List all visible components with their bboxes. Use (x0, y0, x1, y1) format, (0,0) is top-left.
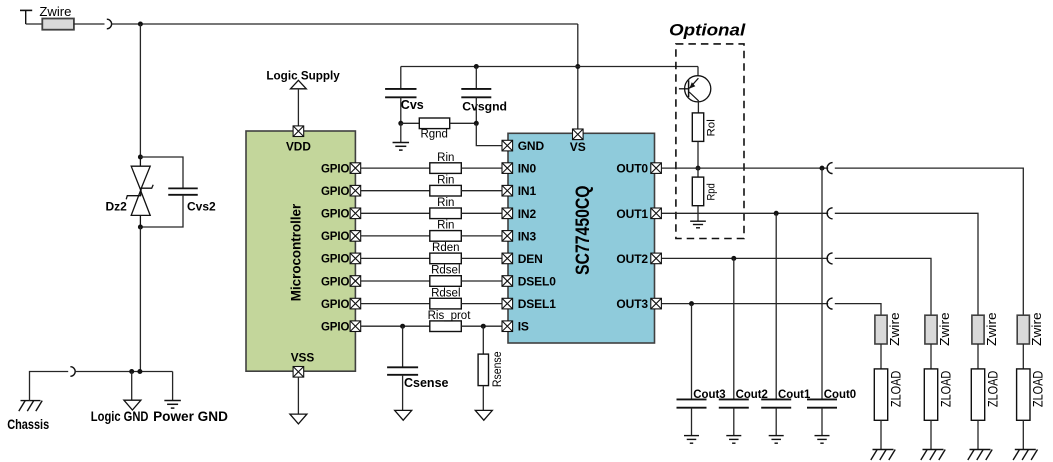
pin GPIO7 on microcontroller (350, 321, 361, 332)
label Rin (437, 174, 454, 186)
svg-text:Logic GND: Logic GND (91, 409, 149, 424)
wire ZLOAD to chassis (column 1) (880, 420, 882, 449)
label ZLOAD (column 3) (985, 371, 1000, 408)
node Cvs / Rgnd junction (398, 121, 403, 126)
label Rdsel (431, 287, 460, 299)
pin VS on SC77450CQ (573, 129, 584, 140)
wire Cout0 drop (821, 168, 823, 399)
ground Power GND (earth) (164, 401, 181, 409)
ground Csense (signal) (395, 410, 412, 420)
svg-text:Dz2: Dz2 (106, 200, 128, 214)
pin GPIO4 on microcontroller (350, 253, 361, 264)
wire Zwire to ZLOAD (column 4) (1022, 344, 1024, 369)
svg-text:Optional: Optional (669, 21, 746, 40)
wire Cout2 drop (733, 258, 735, 399)
wire Cvsgnd bottom to node (475, 97, 477, 123)
wire Cout3 drop (691, 304, 693, 400)
svg-text:Rgnd: Rgnd (420, 128, 448, 140)
wire Power GND drop (172, 372, 174, 401)
resistor ZLOAD (column 1) (874, 369, 887, 420)
wire resistor to DSEL0 pin (461, 280, 502, 282)
svg-text:OUT3: OUT3 (616, 297, 648, 311)
node Logic GND tap (129, 369, 134, 374)
svg-text:DEN: DEN (518, 252, 543, 266)
svg-text:IS: IS (518, 320, 529, 334)
label OUT1 (616, 207, 648, 221)
svg-text:Logic Supply: Logic Supply (266, 68, 340, 82)
svg-text:Csense: Csense (404, 376, 449, 390)
wire GPIO7 to resistor (361, 325, 430, 327)
svg-text:OUT0: OUT0 (616, 162, 648, 176)
svg-text:Zwire: Zwire (39, 5, 71, 19)
svg-text:Zwire: Zwire (888, 312, 902, 346)
label ZLOAD (column 2) (938, 371, 953, 408)
label Rdsel (431, 265, 460, 277)
label Rol (705, 119, 717, 136)
wire Cout1 to ground (775, 408, 777, 436)
ground below Cout3 (earth) (684, 436, 699, 444)
resistor Zwire (load column 1) (875, 315, 887, 344)
capacitor Cout1 (761, 399, 791, 407)
ground below Cvs (earth) (393, 143, 410, 151)
pin OUT3 on SC77450CQ (651, 298, 662, 309)
svg-text:Cvs: Cvs (401, 98, 424, 112)
wire Cout2 to ground (733, 408, 735, 436)
wire Cvs2 bottom to Dz2 bottom (140, 195, 183, 227)
resistor Rpd (692, 177, 703, 206)
svg-text:Rol: Rol (705, 119, 717, 136)
svg-text:Ris_prot: Ris_prot (428, 310, 472, 322)
label Cout2 (736, 387, 769, 401)
node Cvsgnd tap (474, 64, 479, 69)
label Ris_prot (428, 310, 472, 322)
label OUT0 (616, 162, 648, 176)
resistor Rdsel (row DSEL0) (430, 276, 462, 287)
wire resistor to DEN pin (461, 257, 502, 259)
wire resistor to IN2 pin (461, 212, 502, 214)
wire left branch down to Dz2 (139, 24, 141, 157)
power arrow Logic Supply (291, 80, 307, 89)
connector arc on OUT0 (827, 163, 832, 174)
node VS rail junction (575, 64, 580, 69)
wire Zwire to ZLOAD (column 3) (977, 344, 979, 369)
svg-text:Cvsgnd: Cvsgnd (462, 99, 507, 113)
svg-text:GPIO: GPIO (321, 209, 350, 221)
label GPIO (row IN3) (321, 231, 350, 243)
label OUT3 (616, 297, 648, 311)
resistor Rin (row IN1) (430, 185, 462, 196)
node Dz2 bottom (138, 225, 143, 230)
pin OUT1 on SC77450CQ (651, 208, 662, 219)
resistor Zwire (load column 3) (972, 315, 984, 344)
capacitor Cout0 (807, 399, 837, 407)
label Rgnd (420, 128, 448, 140)
svg-text:Zwire: Zwire (1030, 312, 1044, 346)
label IS (518, 320, 529, 334)
label Cvs2 (187, 200, 216, 214)
IC SC77450CQ body (508, 133, 655, 343)
chassis ground symbol (19, 401, 42, 412)
svg-text:Cout3: Cout3 (693, 387, 726, 401)
label Zwire (39, 5, 71, 19)
wire node to GND pin (476, 123, 502, 145)
resistor Zwire (load column 4) (1017, 315, 1029, 344)
label GPIO (row IN0) (321, 163, 350, 175)
label Rden (432, 242, 460, 254)
node Cout3 tap (689, 301, 694, 306)
connector arc J2 (70, 367, 75, 377)
svg-text:Rdsel: Rdsel (431, 287, 460, 299)
wire Logic GND drop (131, 372, 133, 401)
resistor ZLOAD (column 4) (1017, 369, 1030, 420)
label Rpd (705, 183, 717, 200)
pin DSEL0 on SC77450CQ (502, 276, 513, 287)
label Zwire (column 3) (985, 312, 999, 346)
label Power GND (153, 409, 228, 424)
label Microcontroller (289, 203, 304, 301)
ground below Cout0 (earth) (815, 436, 830, 444)
wire resistor to IN1 pin (461, 190, 502, 192)
svg-text:ZLOAD: ZLOAD (1031, 371, 1046, 408)
pin VSS (293, 367, 304, 378)
label IN2 (518, 207, 537, 221)
svg-text:VS: VS (570, 140, 586, 154)
label GND (518, 139, 545, 153)
resistor Rin (row IN2) (430, 208, 462, 219)
label ZLOAD (column 4) (1031, 371, 1046, 408)
wire GPIO0 to resistor (361, 167, 430, 169)
svg-text:Rin: Rin (437, 174, 454, 186)
chassis ground (column 1) (871, 450, 895, 461)
label Rin (437, 220, 454, 232)
wire Rsense to ground (482, 386, 484, 411)
svg-text:Rpd: Rpd (705, 183, 717, 200)
label Csense (404, 376, 449, 390)
resistor ZLOAD (column 3) (971, 369, 984, 420)
wire Rpd to ground (crosses OUT1) (697, 206, 699, 221)
svg-text:Rsense: Rsense (492, 351, 504, 387)
svg-text:GPIO: GPIO (321, 186, 350, 198)
label GPIO (row DSEL1) (321, 299, 350, 311)
wire ZLOAD to chassis (column 3) (977, 420, 979, 449)
chassis ground (column 3) (968, 450, 992, 461)
pin GPIO1 on microcontroller (350, 185, 361, 196)
wire resistor to IN0 pin (461, 167, 502, 169)
pin GPIO3 on microcontroller (350, 231, 361, 242)
wire resistor to IS pin (461, 325, 502, 327)
label SC77450CQ (572, 185, 594, 275)
capacitor Cvs (385, 89, 416, 97)
node Rsense tap on IS row (481, 324, 486, 329)
label Optional (669, 21, 746, 40)
wire GPIO2 to resistor (361, 212, 430, 214)
wire OUT3 to load column (835, 304, 881, 316)
wire OUT1 to load column (835, 213, 978, 315)
ground below Cout2 (earth) (726, 436, 741, 444)
wire Zwire to ZLOAD (column 2) (930, 344, 932, 369)
svg-text:Rdsel: Rdsel (431, 265, 460, 277)
ground below Rpd (earth) (690, 221, 706, 228)
resistor Rgnd (419, 118, 449, 129)
resistor Zwire (load column 2) (925, 315, 937, 344)
wire ZLOAD to chassis (column 2) (930, 420, 932, 449)
wire OUT0 to load column (835, 168, 1024, 315)
node Cvsgnd / Rgnd junction (474, 121, 479, 126)
svg-text:GPIO: GPIO (321, 163, 350, 175)
svg-text:GPIO: GPIO (321, 231, 350, 243)
label DEN (518, 252, 543, 266)
wire VSS to ground (297, 377, 299, 414)
svg-text:Power GND: Power GND (153, 409, 228, 424)
svg-text:DSEL0: DSEL0 (518, 275, 557, 289)
wire terminal to Zwire resistor (26, 23, 43, 25)
wire transistor emitter to Rol (697, 100, 699, 113)
svg-text:Rin: Rin (437, 220, 454, 232)
wire Dz2 top to Cvs2 (140, 157, 183, 188)
wire Cout0 to ground (821, 408, 823, 436)
wire to Rgnd (401, 122, 420, 124)
wire Cout1 drop (775, 213, 777, 399)
label ZLOAD (column 1) (888, 371, 903, 408)
wire Cvsgnd top drop (475, 67, 477, 89)
wire Cvs ground drop (400, 123, 402, 142)
node Cout1 tap (774, 211, 779, 216)
wire VS rail (Cvs to transistor) (401, 66, 698, 68)
label GPIO (row DEN) (321, 254, 350, 266)
wire chassis to connector (30, 372, 69, 401)
ground Logic GND (signal) (124, 400, 141, 410)
svg-text:SC77450CQ: SC77450CQ (572, 185, 594, 275)
pin GPIO5 on microcontroller (350, 276, 361, 287)
svg-text:Rin: Rin (437, 152, 454, 164)
svg-text:OUT2: OUT2 (616, 252, 648, 266)
resistor Ris_prot (row IS) (430, 321, 462, 332)
svg-text:Cout2: Cout2 (736, 387, 769, 401)
transistor Q1 (PNP) (679, 76, 711, 102)
node top-rail / left branch (138, 22, 143, 27)
capacitor Cout3 (677, 399, 707, 407)
svg-text:GPIO: GPIO (321, 299, 350, 311)
svg-text:GPIO: GPIO (321, 322, 350, 334)
svg-text:Cvs2: Cvs2 (187, 200, 216, 214)
label GPIO (row IN1) (321, 186, 350, 198)
wire Logic Supply to VDD (297, 89, 299, 126)
wire OUT3 to connector (661, 303, 828, 305)
label VDD (286, 140, 311, 154)
svg-text:VDD: VDD (286, 140, 311, 154)
label OUT2 (616, 252, 648, 266)
label Logic Supply (266, 68, 340, 82)
ground Rsense (signal) (475, 410, 492, 420)
label IN1 (518, 184, 537, 198)
wire GPIO3 to resistor (361, 235, 430, 237)
wire OUT0 to connector (661, 167, 828, 169)
svg-text:Microcontroller: Microcontroller (289, 203, 304, 301)
svg-text:Zwire: Zwire (938, 312, 952, 346)
label Zwire (column 2) (938, 312, 952, 346)
pin VDD (293, 126, 304, 137)
wire Zwire to ZLOAD (column 1) (880, 344, 882, 369)
label Cout0 (824, 387, 857, 401)
wire Csense drop (402, 326, 404, 367)
wire left branch to ground rail (139, 227, 141, 372)
wire Cout3 to ground (691, 408, 693, 436)
wire VS drop (577, 24, 579, 129)
label Rin (437, 197, 454, 209)
terminal T1 (input stub) (20, 10, 32, 24)
resistor Rsense (478, 354, 488, 386)
microcontroller U2 body (246, 131, 355, 371)
pin IN2 on SC77450CQ (502, 208, 513, 219)
resistor Rin (row IN0) (430, 163, 462, 174)
label VS (570, 140, 586, 154)
wire GPIO4 to resistor (361, 257, 430, 259)
svg-text:IN2: IN2 (518, 207, 537, 221)
wire GPIO1 to resistor (361, 190, 430, 192)
pin IS on SC77450CQ (502, 321, 513, 332)
label Cvsgnd (462, 99, 507, 113)
pin GND on SC77450CQ (502, 140, 513, 151)
svg-text:ZLOAD: ZLOAD (985, 371, 1000, 408)
label IN0 (518, 162, 537, 176)
label Cout3 (693, 387, 726, 401)
resistor Rol (692, 113, 703, 141)
chassis ground (column 2) (921, 450, 945, 461)
chassis ground (column 4) (1013, 450, 1037, 461)
wire Rsense drop (482, 326, 484, 354)
svg-text:GND: GND (518, 139, 545, 153)
svg-text:DSEL1: DSEL1 (518, 297, 557, 311)
svg-text:IN3: IN3 (518, 229, 537, 243)
svg-text:VSS: VSS (291, 351, 315, 365)
label Chassis (7, 417, 49, 432)
connector arc on OUT1 (827, 208, 832, 219)
label DSEL1 (518, 297, 557, 311)
svg-text:Rin: Rin (437, 197, 454, 209)
wire OUT1 to connector (661, 212, 828, 214)
wire Csense to ground (402, 375, 404, 411)
label Rsense (492, 351, 504, 387)
wire Rpd top (697, 168, 699, 177)
capacitor Cout2 (719, 399, 749, 407)
wire Cvs top drop (400, 67, 402, 89)
resistor Rdsel (row DSEL1) (430, 298, 462, 309)
resistor Rden (row DEN) (430, 253, 462, 264)
svg-text:GPIO: GPIO (321, 254, 350, 266)
pin IN3 on SC77450CQ (502, 231, 513, 242)
diode Dz2 (bidirectional TVS) (126, 157, 153, 227)
svg-text:Cout0: Cout0 (824, 387, 857, 401)
wire GPIO6 to resistor (361, 303, 430, 305)
svg-text:Chassis: Chassis (7, 417, 49, 432)
wire ZLOAD to chassis (column 4) (1022, 420, 1024, 449)
wire GPIO5 to resistor (361, 280, 430, 282)
svg-text:ZLOAD: ZLOAD (938, 371, 953, 408)
wire resistor to IN3 pin (461, 235, 502, 237)
label Rin (437, 152, 454, 164)
pin IN0 on SC77450CQ (502, 163, 513, 174)
node left branch bottom (137, 369, 142, 374)
wire OUT2 to load column (835, 258, 931, 315)
capacitor Cvsgnd (461, 89, 491, 97)
connector arc J1 (107, 19, 112, 29)
label Dz2 (106, 200, 128, 214)
label Logic GND (91, 409, 149, 424)
optional dashed box (676, 44, 744, 239)
wire Zwire to connector (74, 23, 105, 25)
resistor ZLOAD (column 2) (924, 369, 937, 420)
node Rol / Rpd junction on OUT0 (696, 166, 701, 171)
svg-text:Zwire: Zwire (985, 312, 999, 346)
svg-text:IN0: IN0 (518, 162, 537, 176)
svg-text:OUT1: OUT1 (616, 207, 648, 221)
wire VS rail to transistor collector (697, 67, 699, 79)
svg-text:Rden: Rden (432, 242, 460, 254)
svg-text:GPIO: GPIO (321, 276, 350, 288)
wire Rol to OUT0 line (697, 141, 699, 168)
label IN3 (518, 229, 537, 243)
node Dz2 top (138, 155, 143, 160)
capacitor Csense (387, 367, 418, 375)
label GPIO (row IN2) (321, 209, 350, 221)
connector arc on OUT2 (827, 253, 832, 264)
capacitor Cvs2 (168, 188, 198, 194)
label DSEL0 (518, 275, 557, 289)
wire resistor to DSEL1 pin (461, 303, 502, 305)
svg-text:IN1: IN1 (518, 184, 537, 198)
label GPIO (row IS) (321, 322, 350, 334)
connector arc on OUT3 (827, 298, 832, 309)
pin GPIO0 on microcontroller (350, 163, 361, 174)
label Zwire (column 4) (1030, 312, 1044, 346)
svg-text:Cout1: Cout1 (778, 387, 811, 401)
label Zwire (column 1) (888, 312, 902, 346)
label Cvs (401, 98, 424, 112)
wire OUT2 to connector (661, 257, 828, 259)
wire Rgnd to Cvsgnd node (450, 122, 477, 124)
node Cout0 tap (820, 166, 825, 171)
wire Cvs bottom to Rgnd node (400, 97, 402, 123)
resistor Zwire (series input) (42, 19, 74, 30)
ground below Cout1 (earth) (769, 436, 784, 444)
pin DSEL1 on SC77450CQ (502, 298, 513, 309)
ground VSS (signal) (290, 414, 307, 424)
label GPIO (row DSEL0) (321, 276, 350, 288)
resistor Rin (row IN3) (430, 231, 462, 242)
wire connector to VS corner (top rail) (112, 23, 578, 25)
pin IN1 on SC77450CQ (502, 185, 513, 196)
pin OUT0 on SC77450CQ (651, 163, 662, 174)
pin GPIO2 on microcontroller (350, 208, 361, 219)
label VSS (291, 351, 315, 365)
node Csense tap on IS row (400, 324, 405, 329)
svg-text:ZLOAD: ZLOAD (888, 371, 903, 408)
pin DEN on SC77450CQ (502, 253, 513, 264)
label Cout1 (778, 387, 811, 401)
pin OUT2 on SC77450CQ (651, 253, 662, 264)
wire connector to Power GND corner (75, 371, 172, 373)
node Cout2 tap (731, 256, 736, 261)
pin GPIO6 on microcontroller (350, 298, 361, 309)
